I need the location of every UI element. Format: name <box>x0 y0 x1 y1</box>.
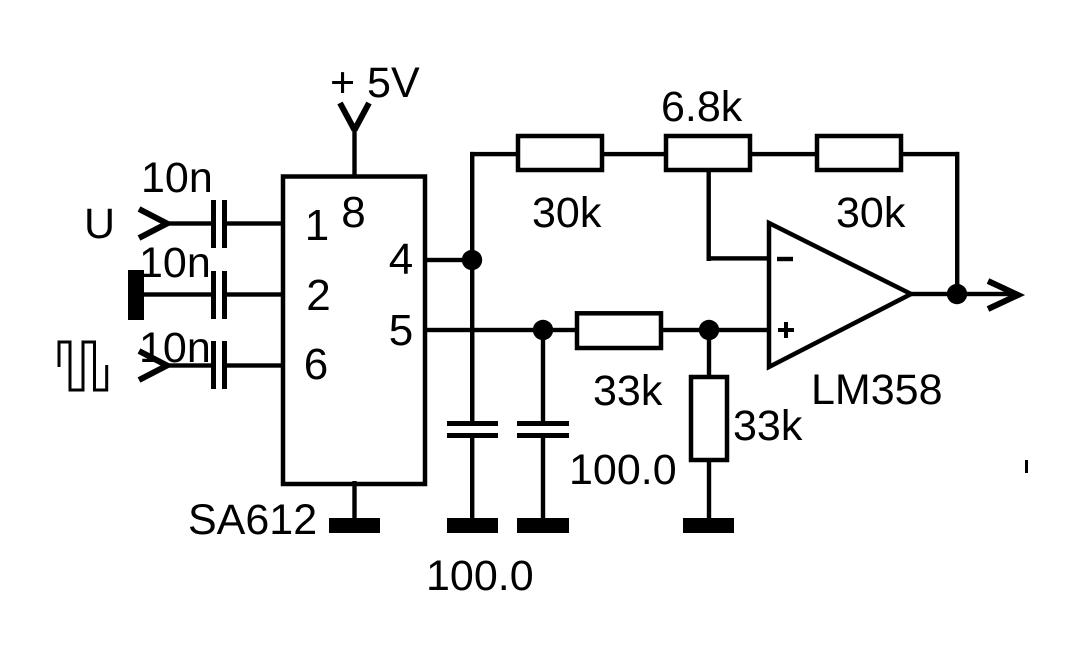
wire R4 to node C <box>661 328 771 332</box>
wire R5 to ground <box>707 460 711 518</box>
svg-text:U: U <box>84 200 115 248</box>
op-amp plus sign <box>778 322 794 338</box>
op-amp U1 LM358 triangle <box>769 223 911 367</box>
svg-text:1: 1 <box>305 201 329 250</box>
wire node C to R5 <box>707 330 711 377</box>
wire R2 to R3 <box>750 152 817 156</box>
svg-text:30k: 30k <box>836 189 906 237</box>
op-amp IC SA612 box <box>283 177 425 485</box>
input arrow row1 <box>139 209 167 238</box>
svg-text:LM358: LM358 <box>811 366 942 414</box>
svg-text:5: 5 <box>389 306 413 355</box>
wire op-amp output <box>909 292 1016 296</box>
node C junction dot <box>699 320 719 340</box>
svg-text:+ 5V: + 5V <box>330 59 420 107</box>
resistor R2 6.8k <box>666 136 750 170</box>
wire +5V stem to pin 8 <box>352 126 356 177</box>
capacitor C5 100.0 stem <box>541 330 545 421</box>
wire R1 to R2 <box>602 152 666 156</box>
resistor R3 30k <box>817 136 901 170</box>
output arrow head <box>988 281 1018 309</box>
resistor R5 33k vertical <box>691 377 727 460</box>
wire R2 tap down <box>707 170 711 261</box>
wire C5 to ground <box>541 438 545 518</box>
svg-text:8: 8 <box>341 188 365 237</box>
svg-text:6: 6 <box>304 340 328 389</box>
svg-text:33k: 33k <box>733 402 803 450</box>
wire C3 to pin 6 <box>227 363 284 367</box>
ground IC <box>329 518 380 533</box>
input arrow row3 <box>139 351 167 380</box>
resistor R1 30k <box>518 136 602 170</box>
wire pin 5 to plus input <box>426 328 577 332</box>
wire top rail left <box>470 152 520 156</box>
ground R5 <box>683 518 734 533</box>
wire C2 to pin 2 <box>227 292 284 296</box>
svg-text:10n: 10n <box>141 154 213 202</box>
svg-text:10n: 10n <box>139 239 211 287</box>
wire pin 4 to node A <box>426 258 474 262</box>
svg-text:100.0: 100.0 <box>426 552 534 600</box>
squarewave source symbol <box>59 342 107 390</box>
wire C4 to ground <box>470 438 474 518</box>
wire IC ground stem <box>352 481 356 518</box>
ground C4 <box>447 518 498 533</box>
op-amp minus sign <box>777 257 793 261</box>
svg-text:6.8k: 6.8k <box>661 83 743 131</box>
wire C1 to pin 1 <box>227 221 284 225</box>
svg-text:33k: 33k <box>593 367 663 415</box>
ground C5 <box>517 518 569 533</box>
stray tick mark <box>1025 460 1028 473</box>
power +5V symbol <box>340 103 369 130</box>
node A junction dot <box>462 250 482 270</box>
wire node A vertical (top rail down to C4) <box>470 152 474 421</box>
svg-text:2: 2 <box>306 271 330 320</box>
capacitor C2 10n plates <box>211 271 216 319</box>
wire row3 arrow to C3 <box>164 363 211 367</box>
wire row2 block to C2 <box>144 292 211 296</box>
svg-text:10n: 10n <box>139 324 211 372</box>
wire R3 to right rail <box>901 152 959 156</box>
svg-text:100.0: 100.0 <box>569 446 677 494</box>
wire row1 arrow to C1 <box>164 221 211 225</box>
wire right rail vertical <box>955 152 959 296</box>
resistor R4 33k <box>577 313 661 348</box>
node B junction dot <box>533 320 553 340</box>
capacitor C4 plates <box>447 421 498 426</box>
input terminal block row2 <box>128 270 144 320</box>
svg-text:30k: 30k <box>532 189 602 237</box>
svg-text:4: 4 <box>389 235 413 284</box>
node D junction dot <box>947 284 967 304</box>
capacitor C3 10n plates <box>211 341 216 389</box>
wire tap to op-amp minus input <box>707 256 772 260</box>
capacitor C4 100.0 stem <box>470 330 474 421</box>
capacitor C1 10n plates <box>211 200 216 248</box>
svg-text:SA612: SA612 <box>188 496 317 544</box>
capacitor C5 plates <box>517 421 569 426</box>
